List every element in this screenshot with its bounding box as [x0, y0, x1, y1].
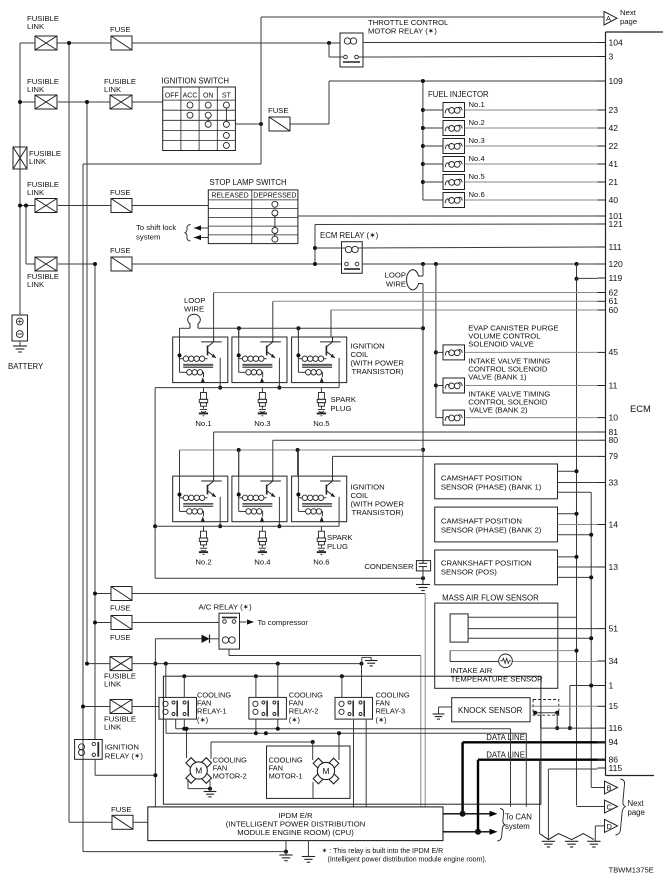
svg-text:15: 15 — [609, 701, 619, 711]
svg-text:SOLENOID VALVE: SOLENOID VALVE — [468, 340, 534, 349]
svg-text:42: 42 — [609, 123, 619, 133]
throttle relay contact — [344, 55, 348, 59]
svg-text:LINK: LINK — [27, 22, 45, 31]
node junction 261,124 — [259, 122, 263, 126]
wire FL8 out — [132, 706, 159, 708]
svg-text:33: 33 — [609, 477, 619, 487]
motor arms — [186, 758, 196, 768]
wire ST output to fuse — [235, 123, 261, 125]
wire left battery bus x=20 — [19, 43, 21, 315]
next page brace — [616, 779, 626, 835]
svg-text:IGNITION: IGNITION — [105, 743, 139, 752]
transformer core — [242, 502, 272, 504]
pin 86 — [598, 759, 606, 761]
node junction 576.5,278.8 — [575, 277, 579, 281]
svg-text:LINK: LINK — [104, 680, 122, 689]
svg-text:DATA LINE: DATA LINE — [486, 751, 525, 760]
next page B triangle — [591, 787, 604, 789]
wire coil feed — [238, 450, 240, 511]
svg-text:(✶): (✶) — [197, 715, 208, 724]
sensor feed bus x=576.5 — [576, 279, 578, 806]
svg-text:FUSE: FUSE — [268, 106, 289, 115]
next page A triangle — [604, 12, 617, 26]
svg-text:KNOCK SENSOR: KNOCK SENSOR — [458, 706, 523, 715]
svg-text:115: 115 — [609, 763, 623, 773]
svg-text:To compressor: To compressor — [258, 618, 309, 627]
wire 86 terminator drop — [539, 761, 541, 833]
svg-text:ECM: ECM — [630, 403, 651, 414]
wire motor2 ground — [187, 779, 189, 789]
svg-text:A: A — [606, 14, 611, 23]
transformer secondary — [180, 371, 187, 373]
data line wire 86 — [478, 759, 598, 761]
svg-text:MOTOR-2: MOTOR-2 — [213, 772, 247, 781]
svg-text:MOTOR RELAY (✶): MOTOR RELAY (✶) — [368, 27, 437, 36]
wire coil out to pin111 — [358, 247, 597, 248]
sensor ground bus x=591.2 — [558, 491, 592, 493]
wire to relay ground — [361, 657, 363, 663]
svg-text:121: 121 — [609, 219, 624, 229]
fuse F7 — [69, 821, 112, 823]
ignition coil unit box — [292, 476, 347, 522]
secondary output arrow — [260, 516, 264, 522]
camshaft position sensor bank1 box — [435, 464, 558, 499]
svg-text:LINK: LINK — [29, 157, 47, 166]
svg-text:C: C — [607, 803, 613, 812]
ground right2 — [565, 840, 578, 842]
node junction 423,328.3 — [421, 326, 425, 330]
svg-text:104: 104 — [609, 37, 624, 47]
node junction 315,248 — [313, 246, 317, 250]
svg-text:11: 11 — [609, 380, 618, 390]
svg-text:80: 80 — [609, 435, 619, 445]
wire emitter to ground bus — [278, 358, 280, 388]
loop wire left symbol — [188, 314, 201, 328]
wire coil out to pin104 — [363, 42, 598, 44]
wire emitter to ground bus — [338, 358, 340, 388]
pin 80 — [598, 439, 606, 441]
svg-text:94: 94 — [609, 737, 619, 747]
transformer primary — [298, 358, 302, 360]
secondary output arrow — [201, 377, 205, 383]
node junction 20,102 — [18, 100, 22, 104]
svg-text:M: M — [195, 766, 202, 776]
pin 115 — [598, 767, 606, 769]
fuel injector No.5 — [421, 180, 425, 184]
svg-text:FUSE: FUSE — [110, 246, 131, 255]
svg-text:Next: Next — [628, 799, 645, 808]
relay feed wires — [165, 664, 167, 698]
CAN brace — [497, 809, 505, 842]
pin 21 — [598, 181, 606, 183]
pin 51 — [598, 628, 606, 630]
wire fuse A to ground rail — [132, 593, 425, 595]
svg-text:DEPRESSED: DEPRESSED — [253, 192, 296, 199]
pin 101 — [598, 215, 606, 217]
fuse F2 ignition — [269, 117, 290, 131]
power transistor — [201, 341, 222, 343]
relay bottom bus 2 — [166, 732, 526, 734]
secondary output arrow — [201, 516, 205, 522]
fusible link FL2 — [35, 95, 57, 109]
transformer secondary — [180, 510, 187, 512]
spark plug — [261, 388, 263, 393]
wire row2 y=102 — [20, 101, 35, 103]
power transistor — [260, 341, 281, 343]
transformer core — [302, 502, 332, 504]
svg-text:PLUG: PLUG — [331, 404, 352, 413]
wire relay out right — [510, 729, 512, 807]
wire bus x=69 — [68, 43, 70, 822]
ignition coil unit box — [232, 337, 287, 383]
wire feed drop box2 g1 — [238, 327, 240, 329]
svg-text:45: 45 — [609, 347, 619, 357]
svg-text:34: 34 — [609, 656, 619, 666]
cooling fan relay box — [249, 697, 287, 719]
svg-text:Next: Next — [620, 8, 637, 17]
wire 79 to No.6 transistor — [332, 456, 334, 476]
wire to next page A — [260, 17, 262, 124]
ignition coil power bus group1 y=328.3 — [180, 327, 191, 329]
wire to compressor — [240, 621, 247, 623]
wire row1 y=43 — [20, 42, 35, 44]
svg-text:FUSE: FUSE — [111, 805, 132, 814]
shift lock brace — [185, 225, 191, 242]
wire stop lamp out to pin101 — [298, 215, 598, 217]
transformer secondary — [239, 510, 246, 512]
wire AC coil feed riser — [154, 639, 156, 807]
fuel injector No.3 — [421, 144, 425, 148]
svg-text:ON: ON — [203, 92, 214, 99]
spark plug — [320, 388, 322, 393]
ground zigzag bus — [540, 834, 594, 840]
node junction 87,102 — [85, 100, 89, 104]
svg-text:21: 21 — [609, 177, 619, 187]
camshaft position sensor bank2 box — [435, 507, 558, 542]
svg-text:No.5: No.5 — [313, 419, 329, 428]
ignition coil unit box — [232, 476, 287, 522]
svg-text:SPARK: SPARK — [331, 395, 357, 404]
wire MAF feed — [468, 616, 576, 618]
wire emitter to ground bus — [219, 358, 221, 388]
pin 60 — [598, 309, 606, 311]
motor-1 box — [267, 746, 351, 798]
svg-text:FUSE: FUSE — [110, 188, 131, 197]
node junction 155.4,775.2 — [153, 773, 157, 777]
svg-text:RELAY-2: RELAY-2 — [289, 707, 319, 716]
next page C triangle — [577, 806, 605, 808]
knock sensor ground — [439, 706, 452, 708]
wire coil feed — [297, 328, 299, 372]
svg-text:page: page — [620, 17, 637, 26]
transformer core — [183, 363, 213, 365]
svg-text:No.2: No.2 — [469, 118, 485, 127]
wire motor1 topright — [338, 733, 340, 760]
pin 111 — [598, 246, 606, 248]
fusible link FL8 — [83, 706, 110, 708]
pin 13 — [598, 566, 606, 568]
wire MAF signal to pin51 — [468, 628, 597, 630]
svg-text:(✶): (✶) — [289, 715, 300, 724]
wire emitter to ground bus — [278, 497, 280, 526]
svg-text:RELEASED: RELEASED — [211, 192, 248, 199]
svg-text:51: 51 — [609, 623, 619, 633]
svg-text:ECM RELAY (✶): ECM RELAY (✶) — [320, 231, 379, 240]
knock sensor box — [452, 698, 530, 722]
node junction 69,43 — [67, 41, 71, 45]
MAF inner element — [450, 614, 468, 642]
svg-text:SPARK: SPARK — [327, 533, 353, 542]
secondary output arrow — [320, 516, 324, 522]
svg-text:LINK: LINK — [27, 188, 45, 197]
transformer secondary — [298, 371, 305, 373]
IPDM E/R box — [148, 807, 443, 841]
svg-text:23: 23 — [609, 105, 619, 115]
node junction 95,264 — [93, 262, 97, 266]
svg-text:TRANSISTOR): TRANSISTOR) — [352, 367, 404, 376]
transformer core — [242, 363, 272, 365]
wire bus x=95 — [94, 264, 96, 740]
svg-text:MASS AIR FLOW SENSOR: MASS AIR FLOW SENSOR — [442, 594, 539, 603]
node junction 155.1,526.3 — [153, 524, 157, 528]
fuel injector No.1 — [421, 108, 425, 112]
spark plug — [320, 526, 322, 531]
wire AC coil bottom — [228, 649, 230, 655]
node junction 423,81 — [421, 79, 425, 83]
transformer primary — [180, 358, 184, 360]
svg-text:A/C RELAY (✶): A/C RELAY (✶) — [199, 603, 253, 612]
secondary output arrow — [320, 377, 324, 383]
svg-text:RELAY-1: RELAY-1 — [197, 707, 227, 716]
node junction 297.6,450 — [296, 448, 300, 452]
svg-text:40: 40 — [609, 195, 619, 205]
node junction 155.4,663.6 — [153, 662, 157, 666]
throttle control motor relay — [340, 33, 363, 67]
svg-text:No.1: No.1 — [469, 100, 485, 109]
ground relay rail — [365, 660, 378, 662]
wire feed box3 g1 — [297, 328, 299, 337]
diode — [155, 638, 201, 640]
spark plug — [203, 388, 205, 393]
pin 94 — [598, 741, 606, 743]
svg-text:120: 120 — [609, 259, 624, 269]
node emitter junction — [277, 524, 281, 528]
transformer primary — [298, 497, 302, 499]
wire motor2 feed — [186, 729, 188, 758]
spark plug — [261, 526, 263, 531]
svg-text:No.4: No.4 — [254, 558, 271, 567]
svg-text:No.5: No.5 — [469, 172, 485, 181]
ignition coil power bus group2 y=450 — [180, 449, 424, 451]
svg-text:14: 14 — [609, 519, 619, 529]
crankshaft position sensor box — [435, 550, 558, 585]
wire emitter to ground bus — [338, 497, 340, 526]
node junction 255.9,676.2 — [254, 674, 258, 678]
fuel injector No.4 — [421, 162, 425, 166]
fusible link FL6 — [35, 257, 57, 271]
wire ignition relay out — [94, 759, 96, 775]
cooling fan relay box — [335, 697, 373, 719]
node emitter junction — [218, 386, 222, 390]
knock shield connector dashed — [533, 700, 559, 716]
node junction 423,264 — [421, 262, 425, 266]
CAN stub 1 — [443, 813, 491, 815]
svg-text:To CAN: To CAN — [505, 813, 532, 822]
wire contact out to pin3 — [358, 56, 597, 59]
wire pin116 — [541, 727, 598, 729]
wire 121 riser — [314, 225, 316, 265]
ignition coil unit box — [292, 337, 347, 383]
wire bus x=87 — [86, 102, 88, 664]
fuse F4 ECM — [111, 257, 132, 271]
wire motor2 topright — [210, 742, 212, 759]
fusible link FL3 — [110, 95, 132, 109]
svg-text:TBWM1375E: TBWM1375E — [609, 866, 654, 875]
svg-text:79: 79 — [609, 451, 619, 461]
motor arms — [313, 758, 323, 768]
node primary tap — [237, 493, 241, 497]
pin 121 — [598, 223, 606, 225]
transformer core — [183, 502, 213, 504]
svg-text:No.4: No.4 — [469, 154, 486, 163]
svg-text:No.1: No.1 — [195, 419, 211, 428]
svg-text:SENSOR (PHASE) (BANK 2): SENSOR (PHASE) (BANK 2) — [441, 526, 542, 535]
svg-text:No.2: No.2 — [195, 558, 211, 567]
svg-text:41: 41 — [609, 159, 619, 169]
pin 42 — [598, 127, 606, 129]
pin 15 — [598, 705, 606, 707]
sensor feed taps — [558, 470, 577, 472]
node primary tap — [296, 493, 300, 497]
secondary output arrow — [260, 377, 264, 383]
svg-text:FUSE: FUSE — [110, 633, 131, 642]
svg-text:VALVE (BANK 2): VALVE (BANK 2) — [469, 406, 528, 415]
svg-text:RELAY-3: RELAY-3 — [376, 707, 406, 716]
wire cam2 to pin14 — [558, 524, 598, 526]
wire coil feed — [238, 328, 240, 372]
pin 22 — [598, 145, 606, 147]
node junction 435.9,264 — [434, 262, 438, 266]
svg-text:system: system — [136, 233, 160, 242]
wire 61 to No.3 transistor — [272, 301, 274, 337]
node junction 238.7,450 — [237, 448, 241, 452]
svg-text:M: M — [323, 766, 330, 776]
ground right1 — [542, 840, 555, 842]
node junction 315,264 — [313, 262, 317, 266]
wire 81 to No.2 transistor — [213, 432, 215, 476]
svg-text:(✶): (✶) — [376, 715, 387, 724]
svg-text:STOP LAMP SWITCH: STOP LAMP SWITCH — [210, 178, 287, 187]
svg-text:3: 3 — [609, 51, 614, 61]
IPDM ground 1 — [285, 841, 287, 852]
power transistor — [260, 480, 281, 482]
EVAP canister purge volume control solenoid valve — [434, 350, 438, 354]
svg-text:SENSOR (POS): SENSOR (POS) — [441, 568, 497, 577]
svg-text:111: 111 — [609, 242, 622, 252]
wire relay out right 2 — [525, 733, 527, 807]
svg-text:WIRE: WIRE — [386, 280, 406, 289]
pin 34 — [598, 660, 606, 662]
svg-text:VALVE (BANK 1): VALVE (BANK 1) — [468, 373, 527, 382]
wire D drop — [594, 826, 596, 841]
svg-text:✶ : This relay is built into t: ✶ : This relay is built into the IPDM E/… — [322, 847, 444, 855]
ignition ground bus group2 — [155, 525, 339, 527]
cooling fan relay box — [159, 697, 197, 719]
node junction 576.5,264 — [575, 262, 579, 266]
ignition coil unit box — [173, 476, 228, 522]
wire to shift lock 2 — [194, 237, 208, 239]
pin 116 — [598, 727, 606, 729]
node primary tap — [237, 353, 241, 357]
wire fuse to injector feed — [290, 123, 329, 125]
wire FL7 out — [132, 663, 362, 665]
wire feed box2 g2 — [238, 450, 240, 476]
svg-text:TRANSISTOR): TRANSISTOR) — [352, 508, 404, 517]
svg-text:CAMSHAFT POSITION: CAMSHAFT POSITION — [441, 517, 522, 526]
pin 120 — [598, 263, 606, 265]
svg-text:10: 10 — [609, 412, 619, 422]
transformer primary — [239, 497, 243, 499]
pin 41 — [598, 163, 606, 165]
node primary tap — [296, 353, 300, 357]
ignition ground bottom wire — [155, 577, 423, 579]
next page D triangle — [595, 825, 604, 827]
node primary tap — [178, 493, 182, 497]
node junction 341.9,676.2 — [340, 674, 344, 678]
svg-text:CONDENSER: CONDENSER — [364, 562, 414, 571]
CAN stub 2 — [443, 831, 491, 833]
svg-text:13: 13 — [609, 562, 619, 572]
transformer secondary — [298, 510, 305, 512]
svg-text:ST: ST — [222, 92, 232, 99]
wire pin119 link — [576, 264, 578, 279]
relay-3 output risers — [353, 720, 355, 807]
wire cam1 to pin33 — [558, 482, 598, 484]
intake air temp thermistor — [499, 654, 513, 668]
pin 3 — [598, 56, 606, 58]
pin 33 — [598, 482, 606, 484]
pin 1 — [598, 685, 606, 687]
stop lamp contacts — [272, 201, 278, 207]
node emitter junction — [277, 386, 281, 390]
fuel injector No.2 — [421, 126, 425, 130]
svg-text:22: 22 — [609, 141, 619, 151]
wire pin115 — [548, 768, 597, 770]
svg-text:DATA LINE: DATA LINE — [486, 733, 525, 742]
transformer secondary — [239, 371, 246, 373]
pin 104 — [598, 42, 606, 44]
wire bottom ground rail — [83, 851, 286, 853]
svg-text:119: 119 — [609, 273, 623, 283]
wire ECM relay coil feed — [315, 247, 345, 249]
knock shield wire — [535, 712, 557, 714]
wire pin1 ground link — [570, 685, 598, 687]
wire knock to pin15 — [530, 705, 597, 707]
wire crank to pin13 — [558, 566, 598, 568]
svg-text:LINK: LINK — [104, 85, 122, 94]
svg-text:LINK: LINK — [27, 280, 45, 289]
svg-text:109: 109 — [609, 76, 624, 86]
svg-text:OFF: OFF — [165, 92, 179, 99]
node primary tap — [178, 353, 182, 357]
ground right3 — [587, 840, 600, 842]
fuse F3 stop lamp — [111, 199, 132, 213]
pin 40 — [598, 199, 606, 201]
svg-text:60: 60 — [609, 305, 619, 315]
ignition coil unit box — [173, 337, 228, 383]
node emitter junction — [218, 524, 222, 528]
power transistor — [320, 480, 341, 482]
